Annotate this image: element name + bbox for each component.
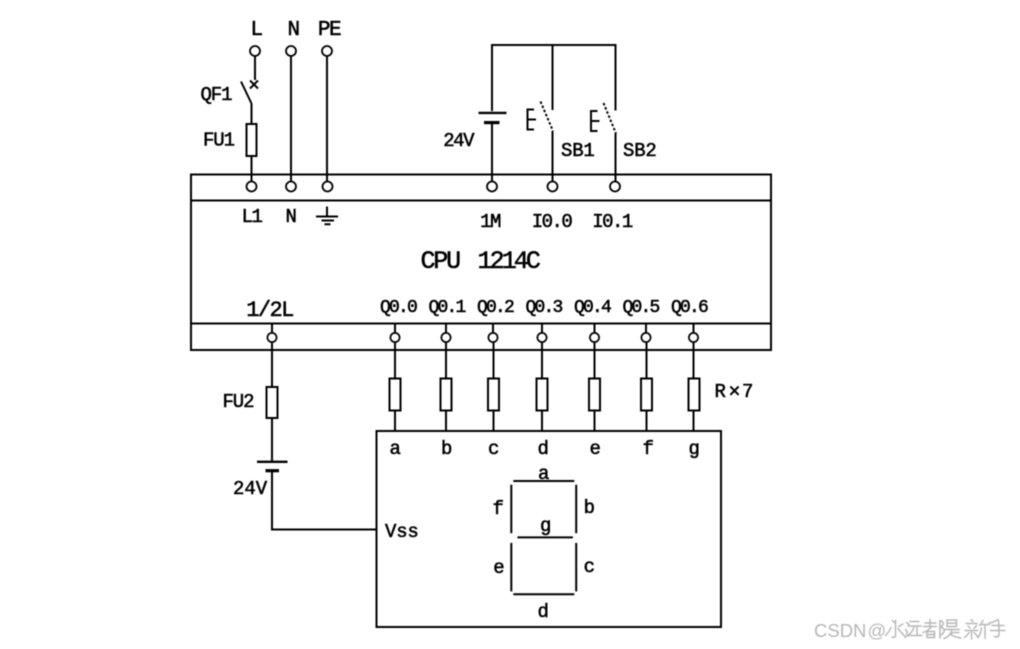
svg-text:1M: 1M (480, 211, 501, 233)
wire 1/2L to FU2 (271, 342, 273, 388)
node 1M label (480, 211, 501, 233)
resistor R a (390, 379, 401, 411)
svg-text:Q0.4: Q0.4 (574, 298, 611, 318)
node Q0.6 label (671, 298, 708, 318)
breaker QF1 X mark (250, 81, 258, 89)
resistor R d (537, 379, 548, 411)
svg-text:Vss: Vss (385, 521, 419, 543)
svg-text:24V: 24V (443, 130, 475, 152)
svg-text:CSDN: CSDN (814, 620, 866, 641)
svg-text:FU2: FU2 (223, 391, 255, 413)
terminal circle PE (322, 46, 332, 56)
node 1/2L label (246, 298, 293, 323)
segment b (575, 485, 577, 534)
battery 24V long plate (479, 112, 507, 114)
wire bus to SB1 (552, 44, 554, 110)
fuse FU1 (247, 124, 257, 156)
terminal circle L (250, 46, 260, 56)
fuse FU2 (267, 387, 278, 418)
pushbutton SB2 actuator (591, 111, 600, 131)
wire Q0.4 to R (594, 342, 596, 379)
wire Q0.2 to R (493, 342, 495, 379)
segment a label (538, 463, 549, 485)
wire N to box (290, 57, 292, 182)
svg-text:PE: PE (318, 19, 341, 42)
watermark hanzi (886, 620, 1006, 640)
resistor R e (589, 379, 600, 411)
wire Q0.3 to R (541, 342, 543, 379)
segment d (513, 593, 574, 595)
terminal circle Q0.0 (390, 325, 399, 343)
breaker QF1 blade (241, 82, 252, 104)
watermark CSDN (814, 620, 886, 641)
wire battery to 1M terminal (491, 124, 493, 181)
node Q0.4 label (574, 298, 611, 318)
node I0.0 label (532, 211, 573, 233)
resistor R c (488, 379, 499, 411)
wire PE to box (326, 57, 328, 182)
wire R to pin f (646, 411, 648, 432)
svg-text:7: 7 (742, 381, 753, 403)
wire R to pin e (594, 411, 596, 432)
svg-text:×: × (729, 382, 741, 405)
node L label (250, 19, 262, 42)
resistor R g (689, 379, 700, 411)
wire R to pin b (445, 411, 447, 432)
segment g label (540, 515, 550, 537)
svg-text:f: f (492, 498, 503, 520)
svg-text:b: b (584, 497, 595, 519)
svg-text:@: @ (868, 620, 887, 641)
svg-text:Q0.3: Q0.3 (525, 298, 562, 318)
segment a (513, 480, 574, 482)
svg-text:a: a (390, 438, 401, 460)
svg-text:I0.1: I0.1 (592, 211, 633, 233)
ground symbol (316, 207, 338, 225)
wire Q0.1 to R (445, 342, 447, 379)
svg-text:f: f (643, 438, 654, 460)
segment c (575, 543, 577, 592)
terminal circle N (286, 46, 296, 56)
pin Vss label (385, 521, 419, 543)
resistor R b (441, 379, 452, 411)
svg-text:b: b (441, 438, 452, 460)
wire QF1 to FU1 (251, 104, 253, 126)
svg-text:L: L (250, 19, 262, 42)
terminal circle N (box) (286, 182, 296, 192)
svg-text:c: c (488, 438, 499, 460)
terminal circle Q0.4 (590, 325, 599, 343)
wire R to pin c (493, 411, 495, 432)
PLC bottom terminal strip line (191, 323, 771, 325)
PLC top terminal strip line (191, 200, 771, 202)
svg-text:N: N (286, 206, 296, 228)
segment f (510, 485, 512, 534)
svg-text:I0.0: I0.0 (532, 211, 573, 233)
pin a label (390, 438, 401, 460)
node N label (287, 19, 298, 42)
terminal circle Q0.6 (689, 325, 698, 343)
resistors value label Rx7 (715, 381, 754, 405)
terminal circle 1M (487, 182, 497, 192)
pin b label (441, 438, 452, 460)
segment g (517, 536, 573, 538)
pin c label (488, 438, 499, 460)
resistor R f (641, 379, 652, 411)
pin f label (643, 438, 654, 460)
battery 24V (lower) long plate (257, 461, 288, 463)
segment e (510, 543, 512, 592)
battery 24V (lower) label (233, 478, 268, 500)
svg-text:24V: 24V (233, 478, 268, 500)
terminal circle PE (box) (323, 182, 333, 192)
wire battery to Vss (271, 529, 377, 531)
node L1 label (242, 206, 263, 228)
svg-text:Q0.2: Q0.2 (477, 298, 514, 318)
terminal circle Q0.5 (641, 325, 650, 343)
pin g label (689, 438, 699, 460)
segment e label (493, 557, 504, 579)
terminal circle Q0.3 (537, 325, 546, 343)
svg-text:e: e (590, 438, 601, 460)
breaker QF1 label (201, 84, 233, 106)
segment f label (492, 498, 503, 520)
fuse FU2 label (223, 391, 255, 413)
wire bus to SB2 (615, 44, 617, 111)
svg-text:L1: L1 (242, 206, 263, 228)
wire L to QF1 (254, 57, 256, 81)
svg-text:Q0.1: Q0.1 (428, 298, 465, 318)
fuse FU1 label (203, 130, 235, 152)
terminal circle I0.0 (548, 182, 558, 192)
wire R to pin d (541, 411, 543, 432)
svg-text:R: R (715, 381, 726, 403)
battery 24V short plate (484, 121, 500, 124)
wire R to pin g (693, 411, 695, 432)
wire FU2 to battery (271, 418, 273, 461)
segment c label (584, 556, 595, 578)
battery 24V (lower) short plate (266, 469, 280, 472)
svg-text:QF1: QF1 (201, 84, 233, 106)
svg-text:N: N (287, 19, 298, 42)
pushbutton SB1 actuator (528, 110, 537, 130)
PLC CPU 1214C outer box (191, 175, 771, 351)
svg-text:1214C: 1214C (478, 247, 540, 276)
terminal circle L1 (247, 182, 257, 192)
svg-text:CPU: CPU (421, 247, 461, 276)
wire bus to battery (491, 44, 493, 111)
svg-text:Q0.6: Q0.6 (671, 298, 708, 318)
node N box label (286, 206, 296, 228)
pushbutton SB2 label (623, 140, 657, 162)
terminal circle Q0.2 (488, 325, 497, 343)
svg-text:SB2: SB2 (623, 140, 657, 162)
wire R to pin a (394, 411, 396, 432)
terminal circle I0.1 (610, 182, 620, 192)
node Q0.1 label (428, 298, 465, 318)
wire top bus (492, 44, 616, 46)
terminal circle Q0.1 (441, 325, 450, 343)
node I0.1 label (592, 211, 633, 233)
svg-text:e: e (493, 557, 504, 579)
svg-text:d: d (538, 438, 548, 460)
svg-text:Q0.5: Q0.5 (622, 298, 659, 318)
wire Q0.0 to R (394, 342, 396, 379)
terminal circle 1/2L (267, 325, 276, 343)
pushbutton SB2 blade (604, 103, 617, 134)
wire Q0.5 to R (646, 342, 648, 379)
battery 24V label (443, 130, 475, 152)
wire SB1 to I0.0 terminal (552, 131, 554, 181)
node Q0.3 label (525, 298, 562, 318)
node PE label (318, 19, 341, 42)
display module box (377, 431, 722, 627)
node Q0.2 label (477, 298, 514, 318)
PLC title CPU 1214C (421, 247, 540, 276)
pushbutton SB1 blade (541, 102, 554, 132)
pushbutton SB1 label (561, 140, 595, 162)
pin e label (590, 438, 601, 460)
segment d label (537, 601, 547, 623)
svg-text:SB1: SB1 (561, 140, 595, 162)
node Q0.5 label (622, 298, 659, 318)
svg-text:1/2L: 1/2L (246, 298, 293, 323)
wire FU1 to L1 terminal (251, 156, 253, 181)
wire Q0.6 to R (693, 342, 695, 379)
segment b label (584, 497, 595, 519)
svg-text:c: c (584, 556, 595, 578)
svg-text:g: g (689, 438, 699, 460)
node Q0.0 label (380, 298, 417, 318)
pin d label (538, 438, 548, 460)
svg-text:d: d (537, 601, 547, 623)
svg-text:FU1: FU1 (203, 130, 235, 152)
wire SB2 to I0.1 terminal (615, 134, 617, 182)
svg-text:Q0.0: Q0.0 (380, 298, 417, 318)
svg-text:g: g (540, 515, 550, 537)
wire battery down (271, 472, 273, 530)
